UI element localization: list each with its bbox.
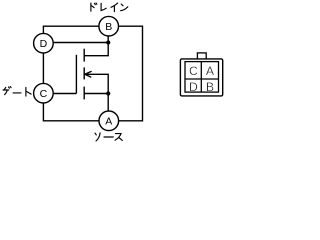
arrowhead of body connection pointing to channel <box>85 71 92 77</box>
katakana ソ <box>95 133 96 135</box>
connector tab <box>197 53 206 60</box>
katakana ン <box>121 4 123 6</box>
svg-text:C: C <box>40 88 48 100</box>
katakana イ <box>111 3 118 7</box>
katakana ド <box>90 3 92 11</box>
text ゲート (gate) drawn as paths <box>3 87 31 97</box>
transistor Q1 channel segment top <box>83 49 85 62</box>
connector outer body <box>180 59 222 96</box>
svg-text:D: D <box>189 80 198 94</box>
wire: D right to drain node <box>53 42 108 44</box>
katakana ト <box>25 87 27 96</box>
connector cross divider <box>185 62 219 93</box>
wire: source lead to source node <box>84 93 108 95</box>
katakana ス <box>115 134 121 141</box>
wire: B right, right rail down to A right <box>119 26 143 121</box>
node: drain junction dot <box>106 40 110 44</box>
wire: D top up and right to terminal B <box>43 26 99 33</box>
text ドレイン (drain) drawn as paths <box>91 3 128 12</box>
svg-text:B: B <box>206 80 214 94</box>
svg-text:D: D <box>40 38 48 50</box>
text ソース (source) drawn as paths <box>95 133 122 141</box>
katakana レ <box>101 3 106 10</box>
node: source junction dot <box>106 91 110 95</box>
svg-text:A: A <box>105 116 112 128</box>
svg-text:A: A <box>206 64 215 78</box>
svg-text:B: B <box>105 21 112 33</box>
wire: D bottom to C top <box>42 53 44 83</box>
transistor Q1 channel segment middle <box>83 67 85 79</box>
terminal A circle <box>99 111 119 131</box>
wire: C right to gate bar (gate lead) <box>53 93 76 95</box>
katakana ー <box>104 136 113 138</box>
wire: body lead with corner down to source node <box>85 74 108 93</box>
transistor Q1 gate bar <box>75 55 77 94</box>
wire: B bottom down through drain node, drain lead left to channel <box>84 36 108 56</box>
connector inner box <box>185 62 219 93</box>
svg-text:C: C <box>189 64 198 78</box>
katakana ー <box>13 92 21 94</box>
wire: C bottom, down and right to A left <box>43 103 99 121</box>
terminal D circle <box>34 33 54 53</box>
terminal C circle <box>34 83 54 103</box>
wire: source node down to terminal A <box>107 94 109 111</box>
transistor Q1 channel segment bottom <box>83 87 85 100</box>
terminal B circle <box>99 16 119 36</box>
katakana ゲ <box>4 87 6 89</box>
